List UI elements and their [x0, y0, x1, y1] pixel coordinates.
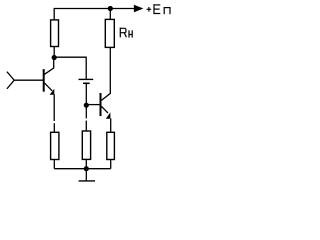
- wire R4 to bottom rail: [85, 160, 87, 169]
- transistor Q1 emitter arrowhead: [50, 89, 55, 95]
- capacitor C1 bottom plate: [83, 82, 90, 84]
- wire Q2 emitter to R5: [110, 118, 112, 132]
- label Rн: [120, 28, 132, 38]
- wire from top dot to Rn: [109, 9, 111, 20]
- wire node A to capacitor: [54, 57, 86, 79]
- arrowhead +Ep supply: [134, 5, 144, 13]
- transistor Q2 base bar: [100, 93, 102, 116]
- node junction dot top (supply to Rn): [108, 6, 113, 11]
- resistor R3 (emitter resistor T1, bottom left): [51, 132, 59, 159]
- wire node B to Q2 base: [86, 104, 99, 106]
- transistor Q1 base bar: [43, 69, 45, 92]
- wire bottom rail: [54, 168, 110, 170]
- wire Rн bottom to T2 collector: [101, 47, 110, 100]
- node junction dot B (cap / T2 base / bias resistor): [84, 103, 89, 108]
- resistor R5 (emitter resistor T2, bottom right): [107, 132, 115, 159]
- ground bar: [79, 180, 95, 182]
- wire Q1 emitter down lower segment (after gap): [53, 123, 55, 132]
- resistor R4 (bias resistor, bottom middle): [82, 131, 90, 159]
- wire R5 to bottom rail: [110, 160, 112, 169]
- input terminal chevron: [7, 72, 14, 89]
- wire top rail: [54, 9, 134, 20]
- resistor R1 (left collector resistor): [51, 20, 59, 47]
- wire node B down lower segment (after gap): [85, 121, 87, 132]
- transistor Q1 collector: [45, 58, 54, 75]
- node junction dot ground: [84, 166, 89, 171]
- wire Q1 emitter down upper segment: [53, 94, 55, 121]
- label +Eп: [147, 4, 171, 14]
- transistor Q1 emitter: [45, 83, 53, 91]
- transistor Q2 emitter: [101, 106, 108, 113]
- wire R1 bottom to node: [53, 47, 55, 58]
- resistor Rн (load): [105, 19, 114, 47]
- wire input to T1 base: [14, 79, 43, 81]
- transistor Q2 emitter arrowhead: [106, 112, 111, 118]
- wire node B down upper segment: [85, 105, 87, 118]
- wire R3 to bottom rail: [53, 160, 55, 169]
- wire capacitor to node B: [85, 84, 87, 105]
- node junction dot A (R1 / T1 collector / coupling): [52, 55, 57, 60]
- ground stub: [85, 169, 87, 181]
- capacitor C1 top plate: [79, 78, 94, 80]
